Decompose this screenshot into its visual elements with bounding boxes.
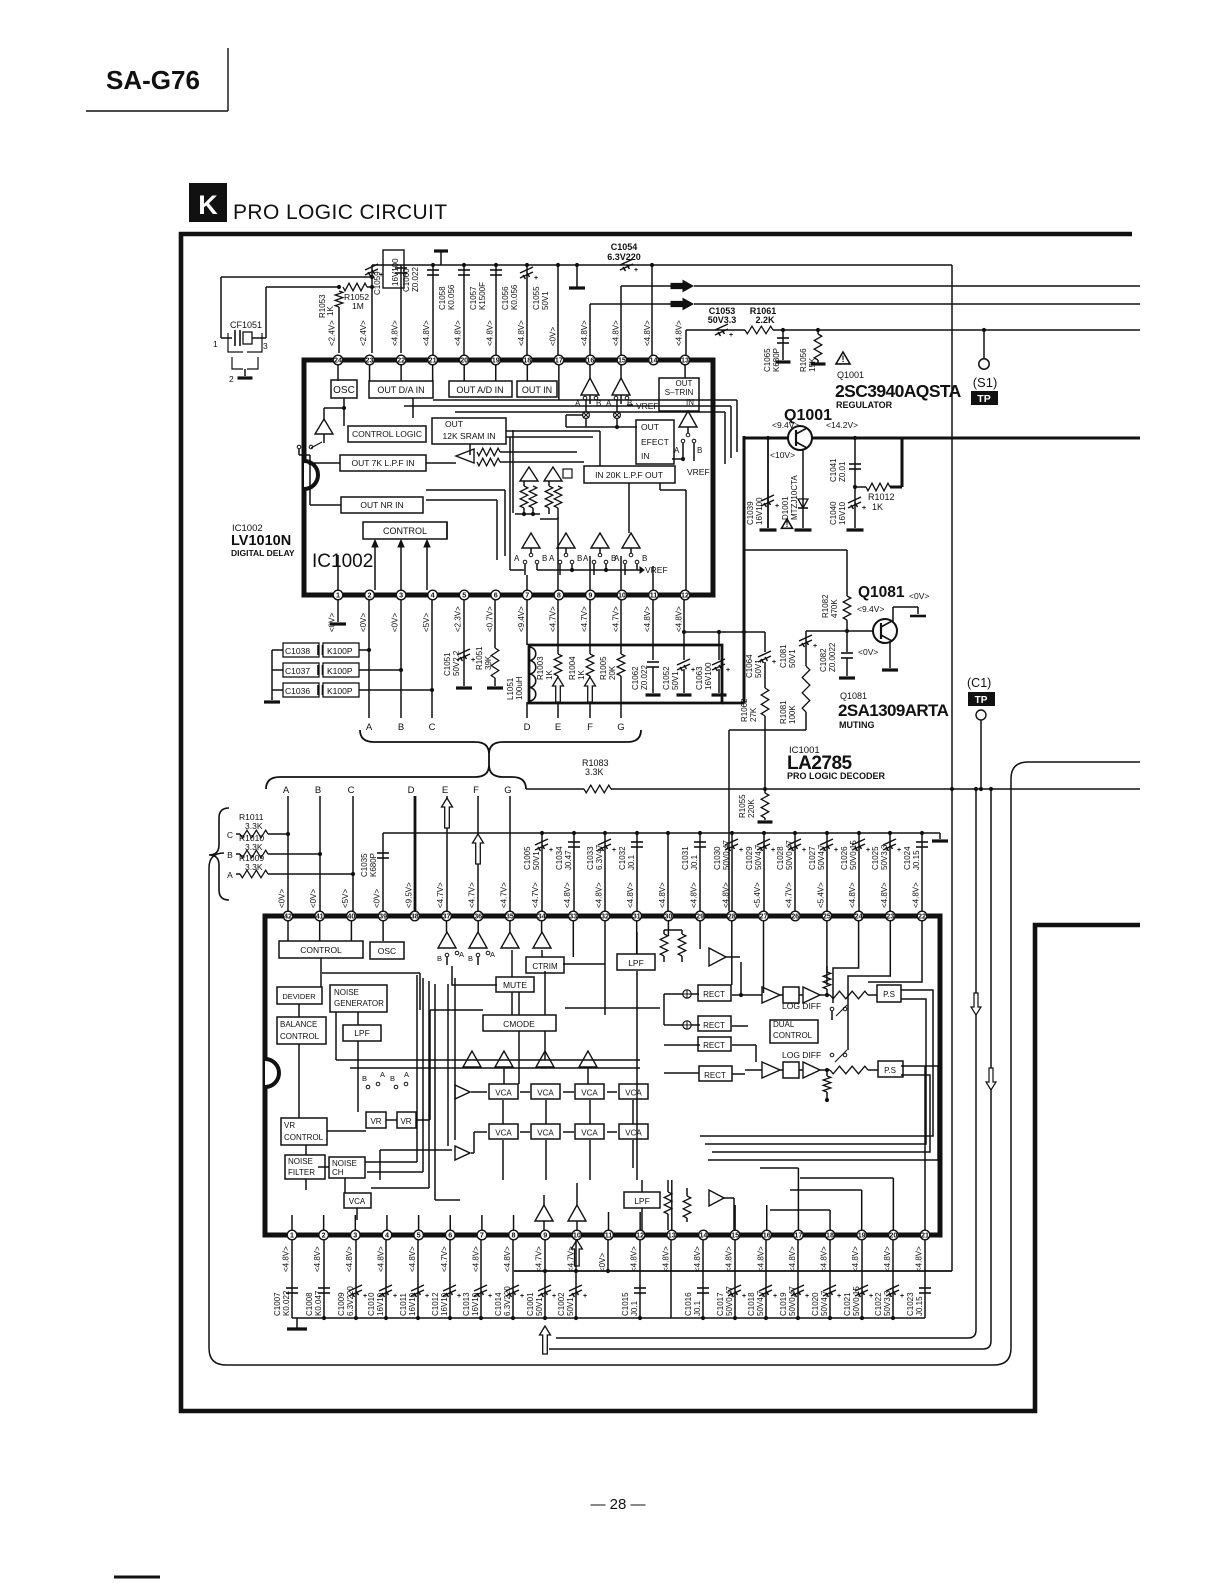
- wire vertical feed B: [549, 787, 993, 1349]
- svg-text:1M: 1M: [352, 301, 364, 311]
- svg-text:23: 23: [886, 912, 894, 921]
- resistor R1051: [475, 600, 503, 688]
- svg-text:3.3K: 3.3K: [245, 821, 263, 831]
- resistor R1056: [799, 328, 826, 372]
- capacitor C1058: [427, 263, 456, 355]
- pin 27 IC1001: [753, 882, 768, 921]
- svg-text:OUT: OUT: [676, 379, 693, 388]
- svg-text:J0.47: J0.47: [564, 850, 573, 870]
- svg-text:CTRIM: CTRIM: [532, 962, 558, 971]
- svg-text:22: 22: [397, 356, 405, 365]
- resistor R1062: [740, 688, 769, 789]
- capacitor C1019: [779, 1240, 809, 1318]
- svg-text:<4.8V>: <4.8V>: [345, 1246, 354, 1272]
- svg-text:OUT: OUT: [641, 422, 659, 432]
- pin 31 IC1001: [626, 882, 641, 921]
- pin 9 IC1001: [535, 1230, 550, 1272]
- capacitor C1082: [819, 631, 855, 678]
- LPF right wiring: [637, 930, 740, 1180]
- svg-text:CF1051: CF1051: [230, 320, 262, 330]
- svg-text:LV1010N: LV1010N: [231, 533, 291, 549]
- svg-text:20K: 20K: [608, 665, 617, 680]
- svg-text:16V10: 16V10: [376, 1292, 385, 1316]
- svg-text:6.3V220: 6.3V220: [607, 252, 641, 262]
- svg-text:C1054: C1054: [611, 242, 638, 252]
- svg-text:IN 20K L.P.F OUT: IN 20K L.P.F OUT: [595, 470, 663, 480]
- svg-text:<4.8V>: <4.8V>: [408, 1246, 417, 1272]
- pin 33 IC1001: [563, 882, 578, 921]
- label IC1002 inside: [312, 551, 373, 572]
- svg-text:<4.8V>: <4.8V>: [693, 1246, 702, 1272]
- svg-text:50V4.7: 50V4.7: [754, 844, 763, 870]
- pin 12 IC1001: [630, 1230, 645, 1272]
- buffer amp pin15: [612, 365, 630, 404]
- label VREF bottom IC1002: [537, 565, 668, 575]
- block VCA 1-4: [619, 1084, 648, 1099]
- power rail box R1003 R1004 R1005: [529, 645, 744, 703]
- block VCA 1-3: [575, 1084, 604, 1099]
- svg-text:OUT A/D IN: OUT A/D IN: [456, 385, 503, 395]
- svg-text:A: A: [490, 950, 495, 959]
- svg-text:38: 38: [411, 912, 419, 921]
- svg-text:R1012: R1012: [868, 492, 895, 502]
- svg-text:C: C: [429, 722, 436, 733]
- svg-text:<4.8V>: <4.8V>: [563, 882, 572, 908]
- svg-text:K0.056: K0.056: [447, 284, 456, 310]
- pin 21 IC1002: [422, 320, 437, 365]
- switch A B output 4: [614, 553, 647, 575]
- block OUT IN: [517, 381, 557, 397]
- svg-text:<2.3V>: <2.3V>: [454, 606, 463, 632]
- block CONTROL IC1001: [279, 941, 363, 958]
- capacitor C1033: [586, 831, 616, 911]
- block DUAL CONTROL: [770, 1020, 818, 1043]
- svg-text:6.3V220: 6.3V220: [346, 1286, 355, 1316]
- svg-text:11: 11: [605, 1231, 613, 1240]
- svg-text:19: 19: [492, 356, 500, 365]
- svg-text:C1017: C1017: [716, 1292, 725, 1316]
- pin 22 IC1001: [912, 882, 927, 921]
- svg-text:<4.7V>: <4.7V>: [785, 882, 794, 908]
- svg-text:LPF: LPF: [634, 1196, 650, 1206]
- label Q1001 regulator: [835, 370, 962, 410]
- capacitor C1029: [745, 831, 775, 911]
- block OUT D/A IN: [369, 381, 433, 398]
- svg-text:VREF: VREF: [645, 565, 668, 575]
- bus brace upper: [360, 730, 641, 765]
- svg-text:K0.047: K0.047: [314, 1290, 323, 1316]
- svg-text:C1064: C1064: [745, 654, 754, 678]
- svg-text:1: 1: [213, 339, 218, 349]
- pin 14 IC1001: [693, 1230, 708, 1272]
- capacitor C1027: [808, 831, 838, 911]
- svg-text:<0V>: <0V>: [858, 647, 878, 657]
- block CTRIM: [526, 957, 564, 973]
- wire pin1 inner stub IC1002: [337, 555, 339, 590]
- page number 28: [590, 1496, 645, 1513]
- pin 3 IC1001: [345, 1230, 360, 1272]
- svg-text:P.S: P.S: [883, 990, 895, 999]
- capacitor C1034: [555, 831, 580, 911]
- svg-text:R1055: R1055: [738, 794, 747, 818]
- svg-text:<4.7V>: <4.7V>: [499, 882, 508, 908]
- svg-text:CONTROL: CONTROL: [284, 1133, 324, 1142]
- wire vertical feed A: [556, 787, 978, 1338]
- svg-text:R1081: R1081: [779, 700, 788, 724]
- svg-text:50V0.15: 50V0.15: [849, 840, 858, 870]
- block OUT 7K LPF IN: [340, 455, 426, 471]
- label VREF pin15: [627, 401, 659, 411]
- svg-text:9: 9: [588, 591, 592, 600]
- capacitor C1007: [273, 1240, 298, 1318]
- svg-text:VCA: VCA: [537, 1129, 554, 1138]
- svg-text:C1014: C1014: [494, 1292, 503, 1316]
- svg-text:C1023: C1023: [906, 1292, 915, 1316]
- svg-text:<4.8V>: <4.8V>: [376, 1246, 385, 1272]
- wire cmode bundle IC1001: [365, 975, 460, 1200]
- svg-text:C1026: C1026: [840, 846, 849, 870]
- svg-text:31: 31: [633, 912, 641, 921]
- svg-text:16V10: 16V10: [471, 1292, 480, 1316]
- svg-text:CH: CH: [332, 1168, 344, 1177]
- svg-text:C1081: C1081: [779, 644, 788, 668]
- svg-text:33: 33: [569, 912, 577, 921]
- section label K: [189, 183, 227, 222]
- svg-text:37: 37: [443, 912, 451, 921]
- resistor R1010: [227, 833, 320, 860]
- svg-text:50V1: 50V1: [535, 1297, 544, 1316]
- rectifier wiring: [664, 962, 762, 1074]
- capacitor C1051: [443, 600, 475, 688]
- log diff chain 2: [745, 1050, 935, 1102]
- svg-text:+: +: [739, 847, 743, 854]
- svg-text:C1036: C1036: [285, 686, 310, 696]
- svg-text:16V100: 16V100: [755, 497, 764, 525]
- svg-text:34: 34: [538, 912, 546, 921]
- svg-text:7: 7: [480, 1231, 484, 1240]
- capacitor C1010: [367, 1240, 397, 1318]
- svg-text:C1027: C1027: [808, 846, 817, 870]
- ground C1036 group: [264, 650, 280, 702]
- svg-text:16V10: 16V10: [838, 501, 847, 525]
- flow arrow up pin10: [571, 1240, 582, 1266]
- svg-text:32: 32: [601, 912, 609, 921]
- svg-text:<4.8V>: <4.8V>: [756, 1246, 765, 1272]
- svg-text:IC1002: IC1002: [312, 551, 373, 572]
- pin 15 IC1002: [611, 320, 626, 365]
- svg-text:<4.8V>: <4.8V>: [880, 882, 889, 908]
- pin 7 IC1001: [471, 1230, 486, 1272]
- svg-text:J0.1: J0.1: [693, 1300, 702, 1316]
- block VCA small: [344, 1193, 371, 1208]
- svg-text:RECT: RECT: [703, 1021, 725, 1030]
- svg-text:C1016: C1016: [684, 1292, 693, 1316]
- svg-text:1K: 1K: [545, 670, 554, 680]
- svg-text:<0V>: <0V>: [309, 889, 318, 908]
- svg-text:20: 20: [889, 1231, 897, 1240]
- wire Q1081 collector: [893, 607, 926, 621]
- label Q1081 muting: [838, 691, 949, 730]
- switch A B effect out: [672, 439, 702, 461]
- test point S1: [971, 328, 998, 405]
- svg-text:G: G: [617, 722, 624, 733]
- svg-text:25: 25: [823, 912, 831, 921]
- pin 13 IC1002: [675, 320, 690, 365]
- svg-text:24: 24: [334, 356, 342, 365]
- block NOISE CH: [329, 1157, 365, 1178]
- pin 19 IC1002: [485, 320, 500, 365]
- svg-text:<4.8V>: <4.8V>: [725, 1246, 734, 1272]
- svg-text:C1019: C1019: [779, 1292, 788, 1316]
- svg-text:<4.8V>: <4.8V>: [630, 1246, 639, 1272]
- pin 2 IC1001: [313, 1230, 328, 1272]
- capacitor C1053: [708, 306, 737, 339]
- resistor pair internal 1: [515, 481, 540, 516]
- svg-text:17: 17: [794, 1231, 802, 1240]
- svg-text:14: 14: [650, 356, 658, 365]
- pin 18 IC1002: [517, 320, 532, 365]
- svg-text:RECT: RECT: [703, 990, 725, 999]
- svg-text:Q1081: Q1081: [840, 691, 867, 701]
- svg-text:C1062: C1062: [631, 666, 640, 690]
- svg-text:36: 36: [474, 912, 482, 921]
- pin 7 IC1002: [517, 590, 532, 632]
- pin 12 IC1002: [675, 590, 690, 632]
- buffer amp pin16: [581, 365, 599, 404]
- svg-text:16V10: 16V10: [440, 1292, 449, 1316]
- svg-text:<4.7V>: <4.7V>: [531, 882, 540, 908]
- pin 17 IC1001: [788, 1230, 803, 1272]
- test point C1: [967, 676, 995, 791]
- flow arrow up E: [442, 798, 453, 828]
- svg-text:19: 19: [858, 1231, 866, 1240]
- svg-text:L1051: L1051: [506, 677, 515, 700]
- svg-text:OUT NR IN: OUT NR IN: [360, 500, 403, 510]
- svg-text:D: D: [408, 785, 415, 796]
- svg-text:<4.7V>: <4.7V>: [611, 606, 620, 632]
- svg-text:+: +: [729, 332, 733, 339]
- svg-text:R1005: R1005: [599, 656, 608, 680]
- block RECT 3: [698, 1037, 731, 1051]
- svg-text:23: 23: [366, 356, 374, 365]
- wire signal out 2: [590, 303, 1140, 305]
- amp left mid 1: [455, 1085, 470, 1099]
- wire top supply bus: [372, 263, 654, 267]
- svg-text:C1052: C1052: [662, 666, 671, 690]
- svg-text:13: 13: [681, 356, 689, 365]
- svg-text:6.3V47: 6.3V47: [595, 844, 604, 870]
- capacitor C1081: [779, 631, 817, 668]
- pin 20 IC1002: [454, 320, 469, 365]
- svg-text:<4.8V>: <4.8V>: [595, 882, 604, 908]
- block OUT EFECT IN: [636, 420, 674, 464]
- svg-text:DUAL: DUAL: [773, 1020, 795, 1029]
- svg-text:C1001: C1001: [526, 1292, 535, 1316]
- capacitor C1020: [811, 1240, 841, 1318]
- svg-text:NOISE: NOISE: [334, 988, 359, 997]
- pin 6 IC1001: [440, 1230, 455, 1272]
- pin 15 IC1001: [725, 1230, 740, 1272]
- block OSC: [331, 380, 357, 398]
- pin 6 IC1002: [485, 590, 500, 632]
- svg-text:TP: TP: [977, 393, 990, 405]
- svg-text:CONTROL: CONTROL: [300, 945, 342, 955]
- svg-text:8: 8: [512, 1231, 516, 1240]
- svg-text:C1037: C1037: [285, 666, 310, 676]
- capacitor C1055: [520, 263, 550, 355]
- svg-text:R1004: R1004: [568, 656, 577, 680]
- svg-text:Z0.0022: Z0.0022: [828, 642, 837, 672]
- svg-text:<4.8V>: <4.8V>: [626, 882, 635, 908]
- block VR CONTROL: [281, 1118, 327, 1145]
- wire bottom pin stubs IC1002: [525, 517, 653, 590]
- wire pin16 column: [589, 304, 591, 355]
- svg-text:29: 29: [696, 912, 704, 921]
- resistor R1011: [227, 812, 288, 840]
- svg-text:C1007: C1007: [273, 1292, 282, 1316]
- svg-text:<0V>: <0V>: [328, 613, 337, 632]
- flow arrow down B: [986, 1068, 996, 1090]
- level amps mid IC1002: [520, 467, 572, 481]
- inductor L1051: [506, 600, 536, 701]
- svg-text:<4.8V>: <4.8V>: [643, 606, 652, 632]
- label IC1002 LV1010N: [231, 523, 295, 558]
- block RECT 2: [698, 1016, 731, 1031]
- flow arrow up return: [540, 1326, 551, 1354]
- svg-text:<4.8V>: <4.8V>: [517, 320, 526, 346]
- switch A B pin16: [575, 396, 601, 418]
- label IC1001 LA2785: [787, 745, 886, 781]
- warning mark Q1001: [836, 352, 850, 364]
- wire pin15 column: [620, 286, 622, 355]
- wire bottom ground bus: [292, 1316, 925, 1320]
- svg-text:50V1: 50V1: [532, 851, 541, 870]
- wire long routes IC1001: [336, 975, 660, 1180]
- svg-text:+: +: [802, 847, 806, 854]
- svg-text:A: A: [459, 950, 464, 959]
- svg-text:+: +: [869, 1293, 873, 1300]
- svg-text:VCA: VCA: [625, 1129, 642, 1138]
- wire B column: [318, 796, 322, 911]
- svg-text:C1009: C1009: [337, 1292, 346, 1316]
- svg-text:+: +: [457, 1293, 461, 1300]
- svg-text:3.3K: 3.3K: [585, 767, 604, 777]
- svg-text:<4.7V>: <4.7V>: [580, 606, 589, 632]
- svg-text:C1015: C1015: [621, 1292, 630, 1316]
- block LPF right: [617, 954, 655, 970]
- capacitor C1021: [843, 1240, 873, 1318]
- svg-text:FILTER: FILTER: [288, 1168, 315, 1177]
- svg-text:<14.2V>: <14.2V>: [826, 420, 858, 430]
- svg-text:50V3.3: 50V3.3: [880, 844, 889, 870]
- wire OSC to control logic: [324, 398, 346, 426]
- svg-text:C1058: C1058: [438, 286, 447, 310]
- schematic border frame: [181, 234, 1140, 1411]
- svg-text:<9.4V>: <9.4V>: [517, 606, 526, 632]
- svg-text:DIGITAL DELAY: DIGITAL DELAY: [231, 548, 295, 558]
- svg-text:<4.8V>: <4.8V>: [912, 882, 921, 908]
- svg-text:<9.4V>: <9.4V>: [857, 604, 884, 614]
- block VCA 1-1: [489, 1084, 518, 1099]
- svg-text:C1013: C1013: [462, 1292, 471, 1316]
- svg-text:A: A: [514, 554, 520, 563]
- transistor Q1001: [770, 407, 858, 460]
- svg-text:C1032: C1032: [618, 846, 627, 870]
- svg-text:+: +: [773, 1293, 777, 1300]
- svg-text:C1010: C1010: [367, 1292, 376, 1316]
- svg-text:C: C: [348, 785, 355, 796]
- svg-text:<9.4V>: <9.4V>: [772, 420, 799, 430]
- svg-text:OUT IN: OUT IN: [522, 385, 552, 395]
- svg-text:50V4.7: 50V4.7: [817, 844, 826, 870]
- svg-text:+: +: [534, 275, 538, 282]
- svg-text:VCA: VCA: [349, 1197, 366, 1206]
- svg-text:B: B: [437, 954, 442, 963]
- svg-text:C1059: C1059: [373, 271, 382, 295]
- pin 5 IC1002: [454, 590, 469, 632]
- svg-text:<4.8V>: <4.8V>: [454, 320, 463, 346]
- block VCA 2-2: [531, 1124, 560, 1139]
- resistor R1012: [855, 483, 895, 512]
- pin 28 IC1001: [721, 882, 736, 921]
- input amps IC1001: [438, 932, 551, 948]
- svg-text:4: 4: [431, 591, 435, 600]
- svg-text:+: +: [726, 667, 730, 674]
- capacitor C1016: [684, 1240, 709, 1318]
- capacitor C1056: [490, 263, 519, 355]
- svg-text:<4.8V>: <4.8V>: [422, 320, 431, 346]
- capacitor C1030: [713, 831, 743, 911]
- capacitor C1013: [462, 1240, 492, 1318]
- pin 8 IC1002: [548, 590, 563, 632]
- svg-text:10: 10: [573, 1231, 581, 1240]
- buffer amp pin13: [679, 411, 697, 437]
- svg-text:9: 9: [543, 1231, 547, 1240]
- svg-text:LPF: LPF: [628, 958, 644, 968]
- svg-text:<9.5V>: <9.5V>: [404, 882, 413, 908]
- svg-text:Q1001: Q1001: [837, 370, 864, 380]
- svg-text:B: B: [315, 785, 321, 796]
- svg-text:<0V>: <0V>: [598, 1253, 607, 1272]
- signal arrow 1: [671, 281, 693, 292]
- pin 39 IC1001: [373, 889, 388, 921]
- svg-text:+: +: [552, 1293, 556, 1300]
- svg-text:30: 30: [664, 912, 672, 921]
- wire 0V return line: [514, 1240, 952, 1273]
- svg-text:F: F: [587, 722, 593, 733]
- label LOG DIFF 2: [782, 1050, 821, 1060]
- letters A B C upper: [366, 722, 436, 733]
- wire CF1051 upper: [221, 277, 372, 338]
- capacitor C1002: [557, 1240, 587, 1318]
- svg-text:C1030: C1030: [713, 846, 722, 870]
- svg-text:20: 20: [460, 356, 468, 365]
- svg-text:+: +: [772, 659, 776, 666]
- pin 9 IC1002: [580, 590, 595, 632]
- svg-text:C1065: C1065: [763, 348, 772, 372]
- svg-text:!: !: [786, 519, 789, 529]
- svg-text:<0.7V>: <0.7V>: [485, 606, 494, 632]
- pin 10 IC1001: [566, 1230, 581, 1272]
- resistor pair internal 2: [515, 481, 562, 520]
- svg-text:J0.1: J0.1: [690, 854, 699, 870]
- svg-text:K100P: K100P: [327, 666, 353, 676]
- svg-text:R1056: R1056: [799, 348, 808, 372]
- svg-text:<4.8V>: <4.8V>: [788, 1246, 797, 1272]
- output amp 2 IC1002: [557, 533, 575, 553]
- capacitor C1038: [272, 643, 371, 657]
- capacitor C1040: [829, 485, 866, 530]
